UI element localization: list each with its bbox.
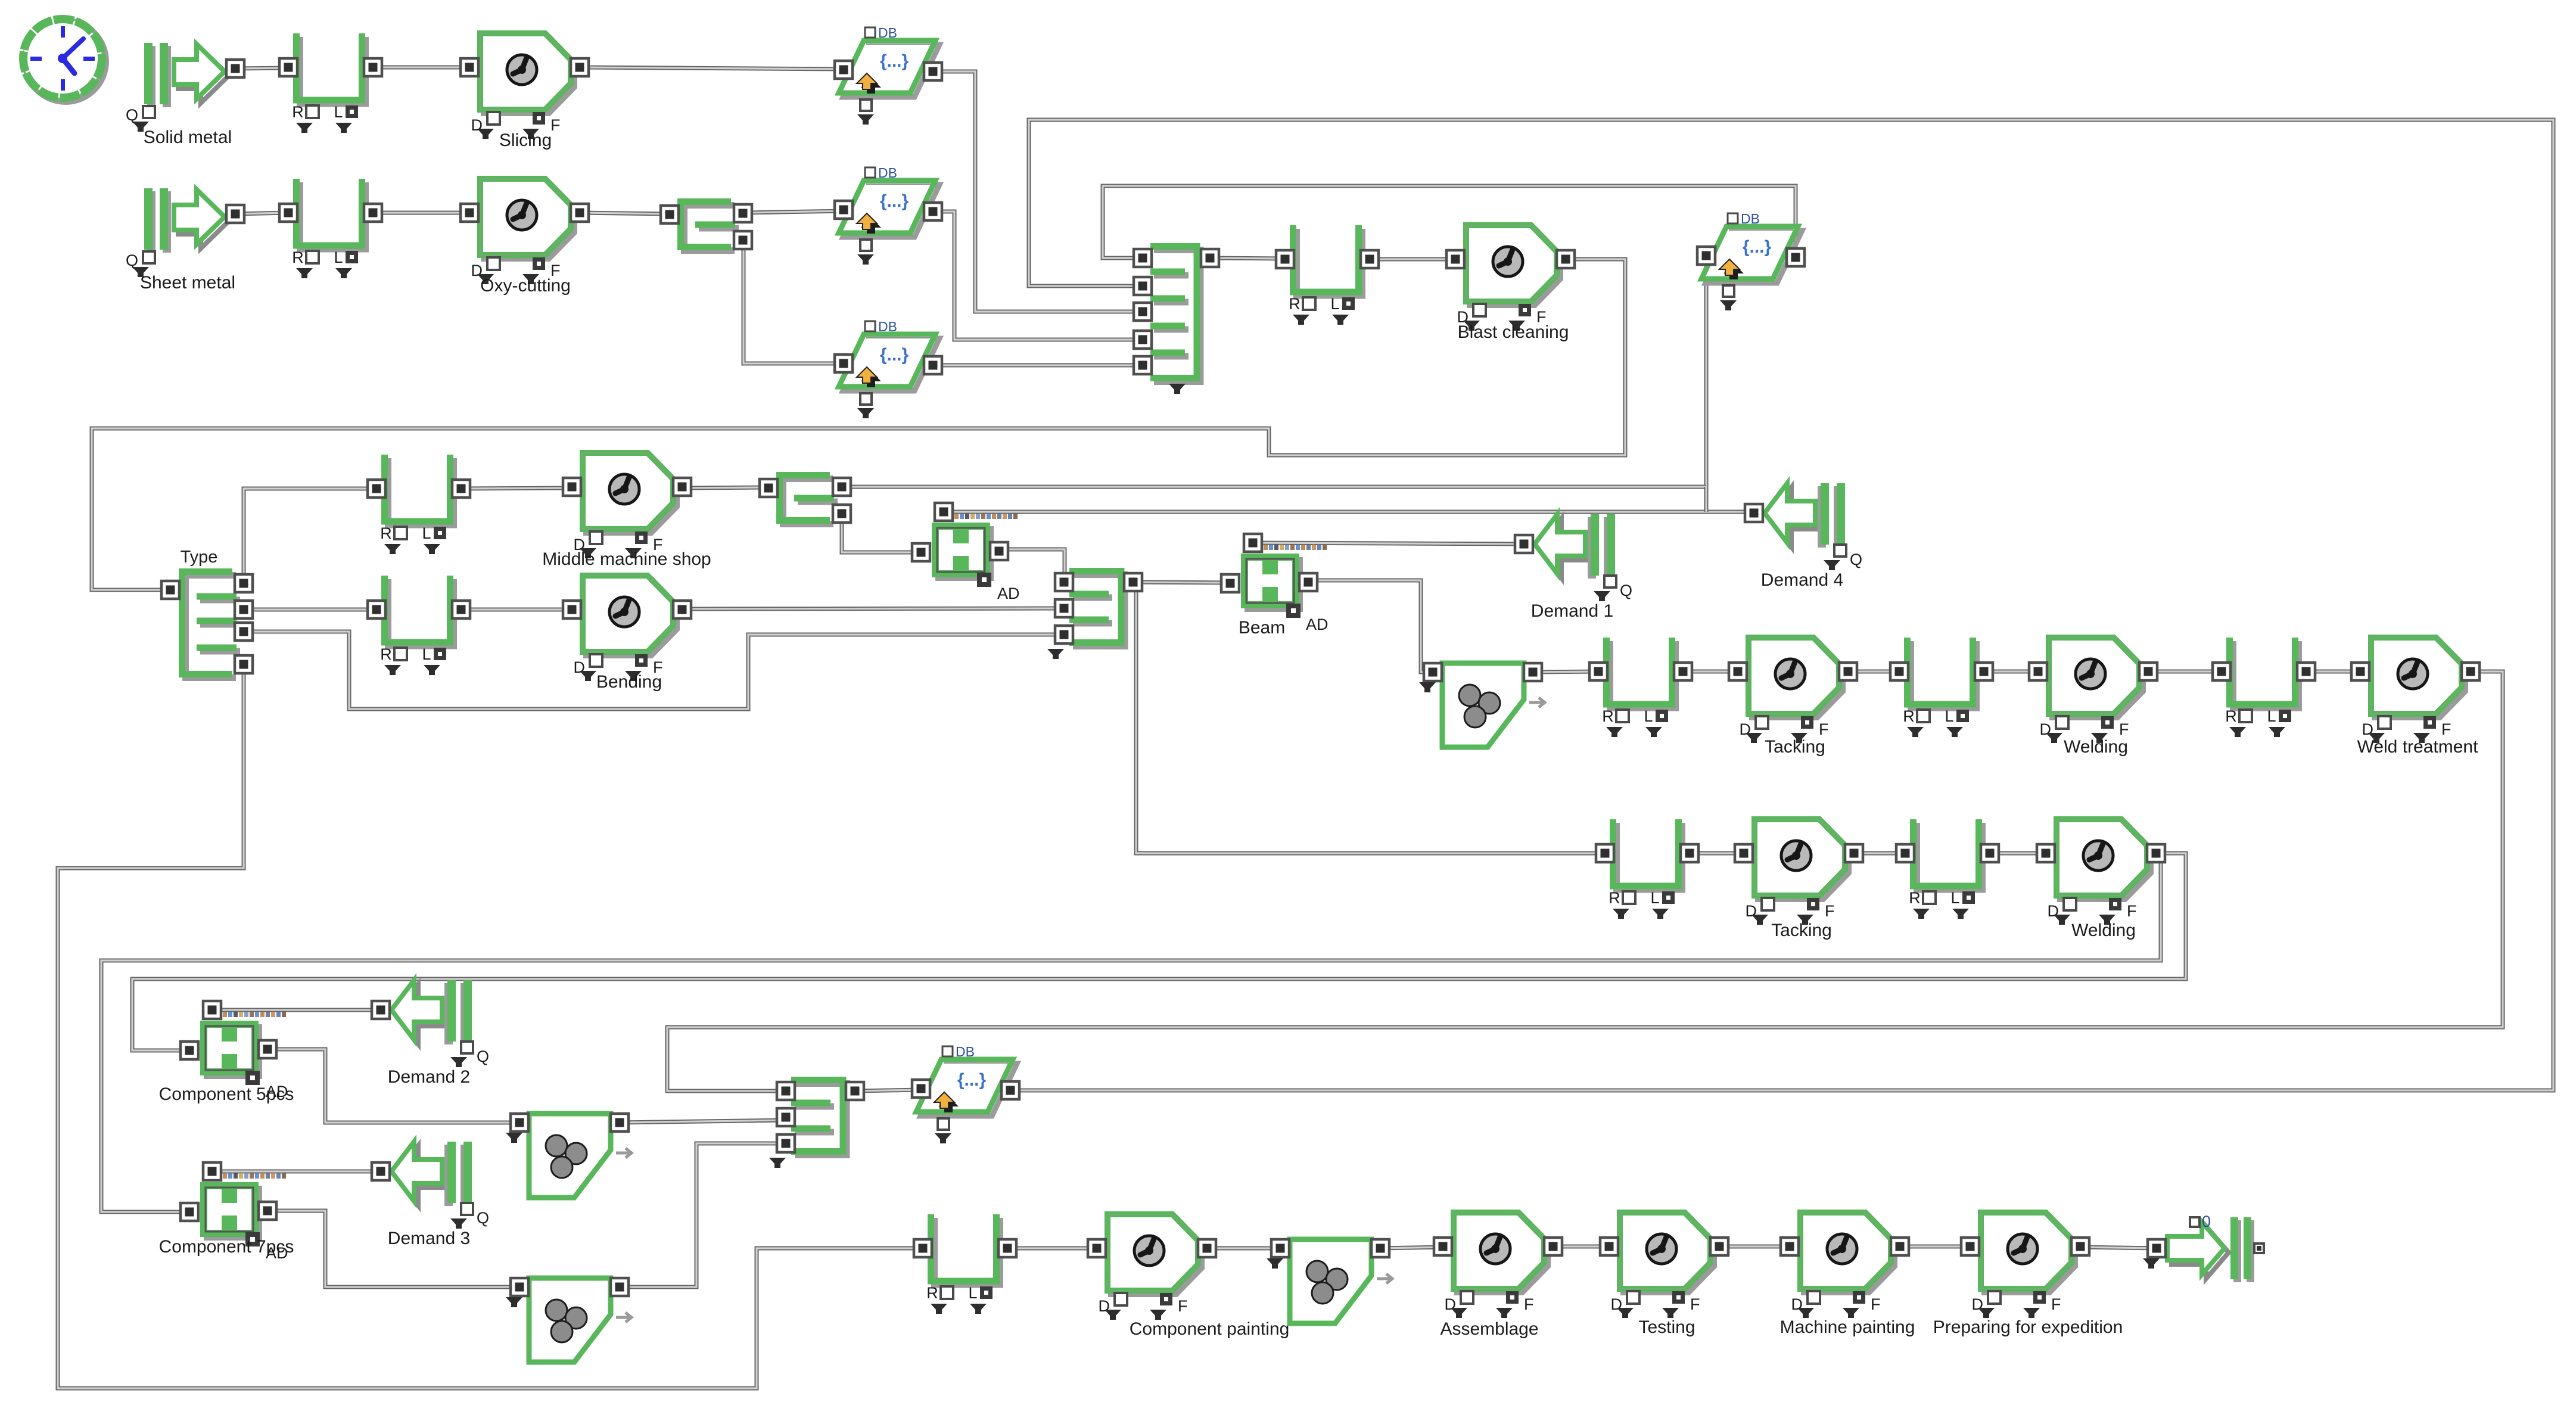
source block Sheet metal xyxy=(126,188,244,293)
wire Beam to batch1 xyxy=(1308,580,1433,672)
queue block bottom row xyxy=(914,1214,1016,1314)
svg-text:Sheet metal: Sheet metal xyxy=(140,273,235,293)
svg-text:Type: Type xyxy=(181,548,218,567)
svg-text:L: L xyxy=(1650,889,1659,907)
activity Blast cleaning xyxy=(1446,225,1575,342)
holding block Beam AD xyxy=(1221,534,1327,618)
wire C1 out1 to DB2 xyxy=(745,211,844,213)
wire Component painting to batch3 xyxy=(1207,1246,1280,1251)
svg-text:{...}: {...} xyxy=(957,1070,987,1090)
activity Weld treatment xyxy=(2351,638,2479,757)
svg-text:R: R xyxy=(380,645,392,663)
activity Preparing for expedition xyxy=(1933,1213,2123,1337)
svg-text:R: R xyxy=(1903,707,1915,725)
wire create Solid metal to queue xyxy=(235,68,288,69)
label Beam xyxy=(1239,618,1285,638)
wire E-merge out to Beam xyxy=(1133,582,1230,583)
svg-text:Slicing: Slicing xyxy=(499,130,552,150)
svg-text:L: L xyxy=(422,524,431,542)
svg-text:{...}: {...} xyxy=(880,345,909,365)
svg-text:F: F xyxy=(1690,1295,1700,1313)
svg-text:DB: DB xyxy=(878,165,897,181)
svg-text:F: F xyxy=(2051,1295,2061,1313)
svg-text:L: L xyxy=(1950,889,1959,907)
svg-text:R: R xyxy=(2225,707,2237,725)
holding block Component 5pcs xyxy=(181,1001,288,1101)
wire DB4 in tap down xyxy=(1704,256,1709,512)
svg-text:F: F xyxy=(1825,902,1835,920)
svg-text:R: R xyxy=(1602,707,1614,725)
wire DB4 out loop to comb in1 xyxy=(1103,186,1796,258)
svg-text:L: L xyxy=(1330,295,1339,313)
queue block before Tacking2 xyxy=(1596,819,1698,919)
wire MMS to splitter C2 xyxy=(682,487,769,488)
wire Welding2 loop to Component 7pcs xyxy=(101,853,2161,1212)
wire Preparing to exit xyxy=(2080,1247,2157,1248)
svg-text:Testing: Testing xyxy=(1638,1317,1695,1337)
svg-text:F: F xyxy=(1871,1295,1881,1313)
wire Blast cleaning loop to Type xyxy=(92,259,1625,590)
wire Slicing to DB1 xyxy=(580,67,844,69)
activity Middle machine shop xyxy=(542,453,711,569)
svg-text:Beam: Beam xyxy=(1239,618,1285,638)
svg-text:F: F xyxy=(1819,720,1829,738)
wire Component 5pcs top to Demand 2 xyxy=(212,1008,381,1012)
wire Weld treatment loop to bottom merge in1 xyxy=(667,672,2503,1091)
svg-text:Component 5pcs: Component 5pcs xyxy=(159,1084,294,1104)
wire Type out1 to queue MMS xyxy=(244,489,377,583)
svg-text:R: R xyxy=(1609,889,1620,907)
merge comb 5-input xyxy=(1134,247,1219,394)
wire queue to Tacking row1 xyxy=(1683,670,1738,674)
activity Bending xyxy=(563,576,691,692)
svg-text:DB: DB xyxy=(878,25,897,41)
wire DB2 to merge comb in4 xyxy=(933,212,1143,340)
label Component 7pcs xyxy=(159,1237,294,1257)
queue block before Weld treatment xyxy=(2213,638,2315,737)
wire queue to Welding row1 xyxy=(1984,670,2038,674)
svg-text:Machine painting: Machine painting xyxy=(1780,1317,1915,1337)
activity Welding row2 xyxy=(2037,819,2165,940)
wire queue to Middle machine shop xyxy=(461,488,572,489)
activity Slicing xyxy=(461,33,589,150)
unbatch block 2 xyxy=(506,1278,631,1362)
label Component 5pcs xyxy=(159,1084,294,1104)
activity Welding row1 xyxy=(2029,638,2157,757)
wire queue to Welding row2 xyxy=(1990,851,2046,856)
svg-text:L: L xyxy=(2267,707,2276,725)
wire Component 7pcs top to Demand 3 xyxy=(212,1170,381,1174)
holding block H1 AD xyxy=(912,503,1020,602)
svg-text:Blast cleaning: Blast cleaning xyxy=(1458,322,1569,342)
sink Demand 2 xyxy=(372,980,489,1087)
svg-text:Demand 1: Demand 1 xyxy=(1531,601,1613,621)
DB block 2 xyxy=(835,165,942,265)
wire bottom queue to Component painting xyxy=(1007,1246,1097,1251)
selector Type xyxy=(161,548,253,678)
svg-text:F: F xyxy=(1524,1295,1534,1313)
queue block row2 xyxy=(279,179,382,278)
merge E 3-input bottom xyxy=(769,1080,864,1168)
svg-text:AD: AD xyxy=(1306,615,1329,633)
wire H1 to E-merge in1 xyxy=(999,549,1065,582)
batch block bottom row xyxy=(1267,1239,1392,1323)
wire batch3 to Assemblage xyxy=(1381,1247,1443,1248)
source block Solid metal xyxy=(126,43,244,147)
wire queue to Weld treatment xyxy=(2306,670,2360,674)
wire H1 top to Demand 4 xyxy=(944,510,1754,514)
wire Type out2 to queue Bending xyxy=(244,608,377,612)
wire Type out3 staple to E-merge in3 xyxy=(244,632,1064,709)
wire Component 5pcs to unbatch1 xyxy=(267,1049,519,1123)
svg-text:L: L xyxy=(1644,707,1653,725)
svg-text:{...}: {...} xyxy=(880,191,909,211)
executive clock xyxy=(23,19,105,101)
queue block before Blast cleaning xyxy=(1276,225,1379,325)
wire DB5 big loop to comb in2 xyxy=(1010,120,2553,1090)
svg-text:L: L xyxy=(334,103,343,121)
wire queue to Oxy-cutting xyxy=(373,211,469,215)
svg-text:L: L xyxy=(1945,707,1953,725)
svg-text:Q: Q xyxy=(126,106,138,124)
wire bottom merge to DB5 xyxy=(855,1090,921,1091)
splitter C2 after MMS xyxy=(760,475,851,524)
svg-text:Preparing for expedition: Preparing for expedition xyxy=(1933,1317,2123,1337)
svg-text:Demand 2: Demand 2 xyxy=(388,1067,470,1087)
wire E-merge down to queue T2 xyxy=(1136,590,1605,853)
svg-text:Q: Q xyxy=(477,1209,489,1227)
wire Welding to queue WT xyxy=(2148,670,2222,674)
svg-text:Weld treatment: Weld treatment xyxy=(2357,737,2479,757)
svg-text:L: L xyxy=(968,1284,977,1302)
svg-text:R: R xyxy=(292,248,304,266)
activity Tacking row1 xyxy=(1729,638,1857,757)
svg-text:F: F xyxy=(2119,720,2129,738)
svg-text:Solid metal: Solid metal xyxy=(144,128,232,147)
DB block 1 xyxy=(835,25,942,125)
svg-text:Tacking: Tacking xyxy=(1771,921,1832,940)
wire Type big loop to bottom queue xyxy=(58,664,923,1388)
wire create Sheet metal to queue xyxy=(235,213,288,214)
label AD Beam xyxy=(1306,615,1329,633)
wire comb to queue3 xyxy=(1210,258,1285,259)
wire unbatch1 to bottom merge in2 xyxy=(620,1120,786,1123)
DB block 4 xyxy=(1697,211,1805,310)
svg-text:F: F xyxy=(2127,902,2137,920)
activity Oxy-cutting xyxy=(461,179,589,296)
svg-text:Component painting: Component painting xyxy=(1130,1319,1290,1339)
activity Tacking row2 xyxy=(1735,819,1863,940)
wire queue to Tacking row2 xyxy=(1690,851,1744,856)
svg-text:R: R xyxy=(1289,295,1301,313)
wire batch1 to queue T1 xyxy=(1533,672,1598,672)
svg-text:Q: Q xyxy=(1850,551,1862,568)
svg-text:F: F xyxy=(1178,1297,1188,1315)
unbatch block 1 xyxy=(506,1114,631,1198)
wire Oxy-cutting to splitter C1 xyxy=(580,213,670,214)
wire Testing to Machine painting xyxy=(1719,1245,1790,1249)
svg-text:0: 0 xyxy=(2202,1213,2211,1230)
svg-text:Welding: Welding xyxy=(2071,921,2136,940)
wire DB1 to merge comb in3 xyxy=(933,72,1143,312)
svg-text:R: R xyxy=(1909,889,1921,907)
DB block 5 xyxy=(912,1044,1019,1143)
wire Machine painting to Preparing xyxy=(1900,1245,1970,1249)
svg-text:R: R xyxy=(380,524,392,542)
svg-text:F: F xyxy=(2441,720,2451,738)
wire C2 out1 long to junction xyxy=(842,485,1706,489)
wire Welding2 loop to Component 5pcs xyxy=(132,853,2186,1050)
svg-text:F: F xyxy=(550,116,561,134)
queue block row1 xyxy=(279,33,382,133)
wire DB3 to merge comb in5 xyxy=(933,363,1143,368)
queue block Bending xyxy=(368,576,470,675)
DB block 3 xyxy=(835,319,942,418)
wire queue3 to Blast cleaning xyxy=(1370,257,1455,262)
svg-text:AD: AD xyxy=(997,585,1020,602)
wire Bending to E-merge in2 xyxy=(682,608,1064,609)
svg-text:Tacking: Tacking xyxy=(1765,737,1825,757)
activity Component painting xyxy=(1088,1214,1289,1339)
svg-text:Q: Q xyxy=(477,1047,489,1065)
wire Beam top to Demand 1 xyxy=(1253,543,1524,544)
holding block Component 7pcs xyxy=(181,1162,288,1262)
queue block before Welding2 xyxy=(1896,819,1999,919)
svg-text:Q: Q xyxy=(1620,582,1632,599)
svg-text:DB: DB xyxy=(878,319,897,334)
wire queue to Slicing xyxy=(373,66,469,70)
wire Tacking2 to queue W2 xyxy=(1854,851,1905,856)
svg-text:Assemblage: Assemblage xyxy=(1440,1319,1538,1339)
sink Demand 4 xyxy=(1745,483,1862,590)
svg-text:Demand 4: Demand 4 xyxy=(1761,570,1843,590)
merge E 3-input middle xyxy=(1047,571,1142,660)
queue block before Welding1 xyxy=(1890,638,1993,737)
svg-text:L: L xyxy=(422,645,431,663)
svg-text:{...}: {...} xyxy=(1743,237,1772,257)
svg-text:R: R xyxy=(926,1284,938,1302)
queue block MMS xyxy=(368,455,470,554)
svg-text:{...}: {...} xyxy=(880,51,909,71)
sink Demand 3 xyxy=(372,1142,489,1248)
svg-text:Oxy-cutting: Oxy-cutting xyxy=(480,276,571,296)
svg-text:Middle machine shop: Middle machine shop xyxy=(542,549,711,569)
svg-text:Bending: Bending xyxy=(596,672,662,692)
activity Machine painting xyxy=(1780,1213,1915,1337)
svg-text:DB: DB xyxy=(1741,211,1760,226)
queue block before Tacking1 xyxy=(1589,638,1692,737)
svg-text:Demand 3: Demand 3 xyxy=(388,1229,470,1248)
wire unbatch2 to bottom merge in3 xyxy=(620,1143,786,1287)
final exit block xyxy=(2143,1213,2264,1282)
wire C1 out2 to DB3 xyxy=(743,240,844,363)
svg-text:DB: DB xyxy=(956,1044,975,1059)
activity Testing xyxy=(1600,1213,1728,1337)
svg-text:Q: Q xyxy=(126,251,138,269)
wire Component 7pcs to unbatch2 xyxy=(267,1211,519,1287)
activity Assemblage xyxy=(1434,1213,1562,1339)
splitter C1 after Oxy-cutting xyxy=(661,202,752,251)
svg-text:Welding: Welding xyxy=(2064,737,2128,757)
wire Assemblage to Testing xyxy=(1553,1245,1609,1249)
wire C2 out2 to H1 xyxy=(842,514,921,552)
sink Demand 1 xyxy=(1515,514,1632,621)
svg-text:Component 7pcs: Component 7pcs xyxy=(159,1237,294,1257)
batch block row1 xyxy=(1419,663,1545,747)
wire queue to Bending xyxy=(461,608,572,612)
svg-text:R: R xyxy=(292,103,304,121)
wire Demand4 junction drop xyxy=(1704,487,1709,512)
wire Tacking to queue W1 xyxy=(1848,670,1899,674)
svg-text:L: L xyxy=(334,248,343,266)
